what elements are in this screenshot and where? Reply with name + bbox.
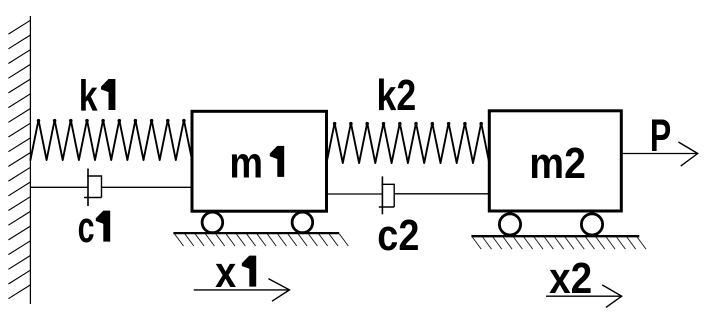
wall hatching — [8, 20, 30, 298]
damper c2 piston plate — [381, 176, 383, 214]
ground hatching under m1 — [175, 234, 349, 246]
ground line under m1 — [173, 232, 339, 234]
damper c2 rod right — [394, 193, 489, 195]
wheel m1 right — [292, 212, 313, 233]
arrow x1 head — [268, 279, 289, 302]
wheel m2 right — [581, 214, 602, 235]
svg-text:c: c — [78, 203, 95, 252]
damper c2 cylinder cup — [379, 184, 394, 207]
damper c1 piston plate — [87, 169, 89, 207]
arrow P shaft — [621, 153, 697, 155]
wheel m2 left — [499, 214, 520, 235]
svg-text:k2: k2 — [377, 72, 417, 120]
ground line under m2 — [471, 235, 639, 237]
damper c2 rod left — [327, 193, 383, 195]
svg-text:x2: x2 — [549, 254, 592, 303]
svg-text:m: m — [229, 138, 263, 187]
damper c1 rod left — [30, 186, 88, 188]
spring k2 — [327, 123, 490, 163]
ground hatching under m2 — [472, 237, 646, 249]
mass m2 box — [489, 111, 621, 211]
arrow P head — [678, 142, 697, 166]
damper c1 cylinder cup — [84, 176, 102, 198]
wall — [29, 16, 31, 304]
spring k1 — [30, 120, 192, 160]
arrow x2 shaft — [546, 295, 622, 297]
damper c1 rod right — [102, 186, 193, 188]
spring k1 coil tips — [37, 119, 186, 123]
wheel m1 left — [202, 212, 223, 233]
svg-text:c2: c2 — [377, 211, 419, 260]
mass m1 box — [192, 111, 327, 211]
spring k2 coil tips — [333, 122, 483, 126]
arrow x2 head — [602, 285, 622, 308]
svg-text:m2: m2 — [529, 139, 586, 187]
arrow x1 shaft — [194, 289, 290, 291]
svg-text:k: k — [79, 73, 98, 121]
